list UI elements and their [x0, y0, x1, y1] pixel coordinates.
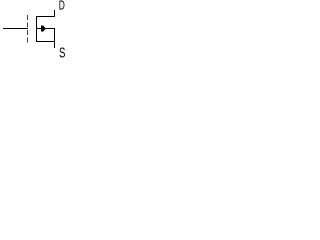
wire gate lead	[3, 28, 28, 29]
svg-text:S: S	[59, 46, 65, 62]
wire drain contact (top horizontal)	[36, 16, 55, 17]
channel bar	[36, 16, 37, 42]
wire source lead (vertical to pin S)	[54, 28, 55, 48]
wire source contact (bottom horizontal)	[36, 41, 55, 42]
arrow body arrowhead	[41, 26, 46, 32]
wire drain lead (vertical to pin D)	[54, 10, 55, 17]
wire body/source line (middle horizontal)	[37, 28, 55, 29]
svg-text:D: D	[59, 0, 65, 13]
N-channel MOSFET Q1 schematic symbol	[0, 0, 77, 66]
gate bar (blue dashed pin line)	[27, 15, 29, 43]
